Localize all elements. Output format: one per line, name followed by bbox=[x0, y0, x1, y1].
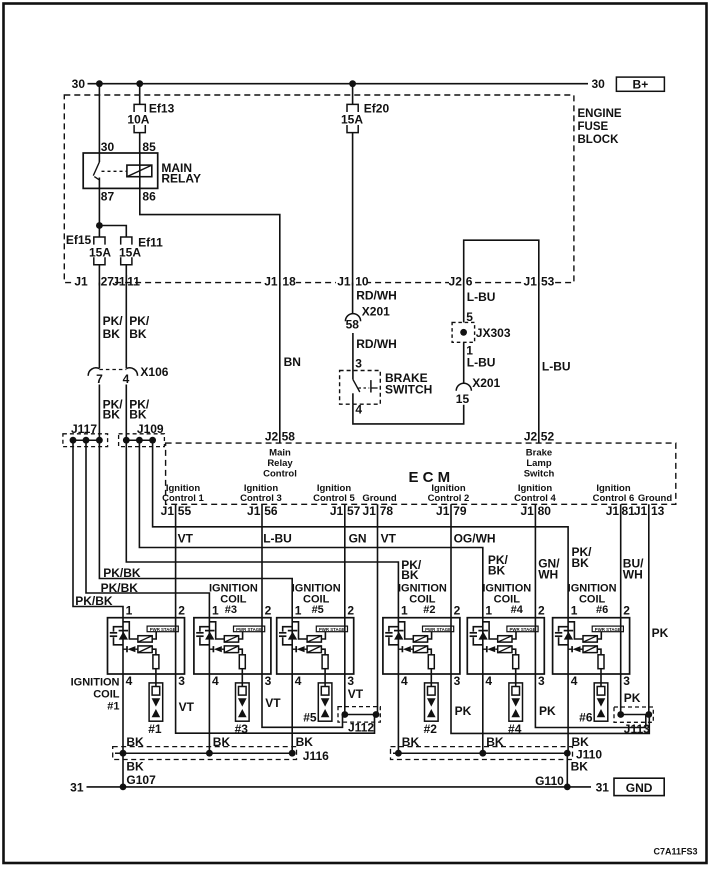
brake switch arm bbox=[353, 379, 360, 392]
wire VT J1-78 to J112 bbox=[377, 504, 379, 714]
fuse Ef20 15A bbox=[347, 104, 358, 112]
svg-text:Control 2: Control 2 bbox=[428, 493, 470, 504]
ignition coil #5 resistor bbox=[321, 649, 325, 655]
svg-text:WH: WH bbox=[623, 568, 643, 582]
spark plug #2 bbox=[425, 683, 439, 721]
main relay box bbox=[83, 153, 158, 188]
ignition coil #1 wire to spark plug bbox=[155, 669, 157, 687]
wire J2-6 to JX303 bbox=[463, 283, 465, 323]
connector X201 pin 58 arc bbox=[345, 314, 360, 322]
svg-text:1: 1 bbox=[401, 604, 408, 618]
svg-text:VT: VT bbox=[265, 696, 281, 710]
svg-text:BK: BK bbox=[126, 760, 144, 774]
splice JX303 bbox=[452, 322, 475, 342]
ignition coil #6 resistor bbox=[597, 649, 601, 655]
wire Ef20 to J1-10 bbox=[352, 133, 354, 283]
wire PK/BK feed to ignition coil1 pin 1 bbox=[73, 440, 123, 618]
ignition coil #6 power stage bbox=[592, 626, 623, 632]
junction on 30 bus at relay feed bbox=[96, 80, 103, 87]
svg-text:87: 87 bbox=[101, 190, 115, 204]
svg-text:#6: #6 bbox=[579, 710, 593, 724]
svg-text:Main: Main bbox=[269, 448, 291, 459]
svg-text:BK: BK bbox=[103, 408, 121, 422]
svg-text:IGNITION: IGNITION bbox=[568, 583, 617, 595]
main relay pin 85-86 through wire bbox=[139, 153, 141, 188]
main relay actuator dashed link bbox=[102, 170, 127, 172]
brake switch pin 4 stub bbox=[352, 393, 354, 404]
main relay coil bbox=[127, 165, 152, 177]
ignition coil #5 wire to spark plug bbox=[324, 669, 326, 687]
svg-text:J113: J113 bbox=[624, 722, 650, 736]
ground G110 junction bbox=[564, 784, 571, 791]
svg-text:VT: VT bbox=[179, 700, 195, 714]
svg-text:#2: #2 bbox=[423, 604, 435, 616]
wire 30 bus to fuse Ef13 bbox=[139, 84, 141, 105]
wire BN J1-18 to ECM J2-58 bbox=[279, 283, 281, 444]
splice J113 bbox=[614, 707, 653, 722]
svg-text:GN: GN bbox=[349, 532, 367, 546]
wire G110 ground drop bbox=[566, 753, 568, 787]
svg-text:1: 1 bbox=[485, 604, 492, 618]
junction on 30 bus at Ef20 bbox=[349, 80, 356, 87]
svg-text:#4: #4 bbox=[508, 722, 522, 736]
fuse Ef11 15A bbox=[121, 237, 132, 245]
wire GN J1-57 to coil5 pin 2 and pin 3 to J112 bbox=[344, 504, 346, 714]
ignition coil #5 secondary diode bbox=[292, 648, 296, 650]
ignition coil #5 capacitor bbox=[283, 627, 293, 632]
svg-text:PK/: PK/ bbox=[129, 314, 150, 328]
svg-text:1: 1 bbox=[466, 344, 473, 358]
svg-text:Ground: Ground bbox=[362, 493, 396, 504]
svg-text:IGNITION: IGNITION bbox=[292, 583, 341, 595]
fuse Ef15 15A bbox=[94, 237, 105, 245]
ignition coil #1 capacitor bbox=[114, 627, 124, 632]
svg-text:X201: X201 bbox=[362, 305, 390, 319]
svg-text:J1: J1 bbox=[74, 275, 88, 289]
wire 31 ground bus bbox=[87, 786, 592, 788]
splice bus J110 bbox=[391, 747, 573, 760]
ignition coil #2 capacitor bbox=[389, 627, 399, 632]
ignition coil #6 secondary diode bbox=[568, 648, 572, 650]
svg-text:#4: #4 bbox=[511, 604, 524, 616]
svg-text:BK: BK bbox=[401, 568, 419, 582]
wire PK/BK feed to ignition coil5 pin 1 bbox=[99, 440, 292, 618]
svg-text:X201: X201 bbox=[472, 376, 500, 390]
svg-text:B+: B+ bbox=[633, 77, 649, 91]
svg-text:3: 3 bbox=[355, 357, 362, 371]
svg-text:#1: #1 bbox=[148, 722, 162, 736]
svg-text:Control 5: Control 5 bbox=[313, 493, 355, 504]
svg-text:G110: G110 bbox=[535, 774, 564, 788]
svg-text:BK: BK bbox=[488, 564, 506, 578]
ignition coil #5 zener diode bbox=[288, 630, 298, 632]
ignition coil #6 primary winding bbox=[568, 622, 583, 639]
ignition coil #2 primary winding bbox=[398, 622, 413, 639]
svg-text:SWITCH: SWITCH bbox=[385, 383, 432, 397]
svg-text:4: 4 bbox=[571, 674, 578, 688]
svg-text:RD/WH: RD/WH bbox=[356, 337, 397, 351]
wire J1-11 to X106-4 bbox=[125, 283, 127, 369]
ignition coil #2 zener diode bbox=[394, 630, 404, 632]
ignition coil #6 secondary winding bbox=[583, 646, 597, 653]
svg-text:J1: J1 bbox=[247, 504, 261, 518]
ignition coil #1 primary winding bbox=[123, 622, 138, 639]
svg-text:J116: J116 bbox=[303, 749, 329, 763]
wire Ef13 to relay pin 85 bbox=[139, 133, 141, 153]
svg-text:#6: #6 bbox=[596, 604, 608, 616]
ignition coil #3 pin 1-4 through wire bbox=[208, 618, 210, 754]
svg-text:IGNITION: IGNITION bbox=[209, 583, 258, 595]
ignition coil #3 secondary winding bbox=[224, 646, 238, 653]
svg-text:BK: BK bbox=[103, 327, 121, 341]
wire brake switch pin 4 to X201-15 leg bbox=[353, 404, 464, 424]
svg-text:#5: #5 bbox=[312, 604, 324, 616]
ground G107 junction bbox=[120, 784, 127, 791]
ignition coil #4 capacitor bbox=[473, 627, 483, 632]
svg-text:WH: WH bbox=[538, 568, 558, 582]
svg-text:GND: GND bbox=[626, 781, 653, 795]
ignition coil #3 zener diode bbox=[205, 630, 215, 632]
ignition coil #6 box bbox=[553, 618, 630, 674]
wire G107 ground drop bbox=[122, 753, 124, 787]
svg-text:58: 58 bbox=[282, 430, 296, 444]
svg-text:J1: J1 bbox=[112, 275, 126, 289]
spark plug #4 bbox=[509, 683, 523, 721]
svg-text:OG/WH: OG/WH bbox=[454, 532, 496, 546]
ignition coil #2 power stage bbox=[423, 626, 454, 632]
svg-text:1: 1 bbox=[126, 604, 133, 618]
svg-text:#2: #2 bbox=[424, 722, 438, 736]
svg-text:2: 2 bbox=[454, 604, 461, 618]
svg-text:L-BU: L-BU bbox=[263, 532, 292, 546]
wire VT J1-55 to coil1 pin 2 and pin 3 to J112 bbox=[176, 504, 375, 733]
svg-text:FUSE: FUSE bbox=[578, 121, 609, 133]
wire PK/BK feed to ignition coil4 pin 1 bbox=[139, 440, 482, 618]
svg-text:#3: #3 bbox=[235, 722, 249, 736]
svg-text:BK: BK bbox=[486, 735, 504, 749]
svg-text:PWR STAGE: PWR STAGE bbox=[319, 627, 346, 633]
svg-text:J1: J1 bbox=[634, 504, 648, 518]
svg-text:58: 58 bbox=[346, 318, 360, 332]
svg-text:53: 53 bbox=[541, 275, 555, 289]
ignition coil #3 resistor bbox=[239, 649, 243, 655]
svg-text:10: 10 bbox=[355, 275, 369, 289]
spark plug #6 bbox=[594, 683, 608, 721]
svg-text:15A: 15A bbox=[119, 245, 141, 259]
ignition coil #5 pin 1-4 through wire bbox=[291, 618, 293, 754]
ignition coil #4 resistor bbox=[512, 649, 516, 655]
svg-text:J1: J1 bbox=[524, 275, 538, 289]
ignition coil #1 power stage bbox=[147, 626, 178, 632]
svg-text:PWR STAGE: PWR STAGE bbox=[236, 627, 263, 633]
svg-text:3: 3 bbox=[623, 674, 630, 688]
svg-text:13: 13 bbox=[651, 504, 665, 518]
wire X106-7 to J117 bbox=[98, 385, 100, 441]
svg-text:3: 3 bbox=[347, 674, 354, 688]
svg-text:Ground: Ground bbox=[638, 493, 672, 504]
svg-text:PK/BK: PK/BK bbox=[75, 594, 113, 608]
ignition coil #3 capacitor bbox=[200, 627, 210, 632]
svg-text:RELAY: RELAY bbox=[161, 172, 201, 186]
svg-text:80: 80 bbox=[538, 504, 552, 518]
svg-text:15A: 15A bbox=[341, 113, 363, 127]
brake switch pin 3 stub bbox=[352, 371, 354, 380]
spark plug #3 bbox=[236, 683, 250, 721]
svg-text:BK: BK bbox=[129, 408, 147, 422]
svg-text:RD/WH: RD/WH bbox=[356, 289, 397, 303]
ignition coil #1 box bbox=[108, 618, 185, 674]
svg-text:JX303: JX303 bbox=[476, 326, 511, 340]
wire PK/BK feed to ignition coil3 pin 1 bbox=[86, 440, 209, 618]
svg-text:4: 4 bbox=[485, 674, 492, 688]
spark plug #1 bbox=[149, 683, 163, 721]
svg-text:4: 4 bbox=[123, 372, 130, 386]
svg-text:X106: X106 bbox=[140, 365, 168, 379]
ignition coil #5 secondary winding bbox=[307, 646, 321, 653]
svg-text:4: 4 bbox=[126, 674, 133, 688]
ignition coil #6 capacitor bbox=[559, 627, 569, 632]
pin label J1 27 bbox=[73, 275, 114, 285]
wire J1-27 to X106-7 bbox=[98, 283, 100, 369]
wire J1-53 to ECM J2-52 bbox=[538, 283, 540, 444]
ignition coil #6 pin 1-4 through wire bbox=[567, 618, 569, 754]
svg-text:Lamp: Lamp bbox=[526, 458, 552, 469]
svg-text:C7A11FS3: C7A11FS3 bbox=[653, 847, 697, 857]
svg-text:7: 7 bbox=[96, 372, 103, 386]
svg-text:57: 57 bbox=[347, 504, 361, 518]
svg-text:IGNITION: IGNITION bbox=[398, 583, 447, 595]
svg-text:4: 4 bbox=[401, 674, 408, 688]
wire PK/BK feed to ignition coil2 pin 1 bbox=[126, 440, 398, 618]
svg-text:Control: Control bbox=[263, 469, 297, 480]
svg-text:30: 30 bbox=[72, 77, 86, 91]
svg-text:PK: PK bbox=[652, 626, 669, 640]
svg-text:BK: BK bbox=[296, 735, 314, 749]
ignition coil #3 secondary diode bbox=[209, 648, 213, 650]
svg-text:Control 1: Control 1 bbox=[162, 493, 204, 504]
ignition coil #3 box bbox=[194, 618, 271, 674]
svg-text:Control 3: Control 3 bbox=[240, 493, 282, 504]
ignition coil #4 primary winding bbox=[483, 622, 498, 639]
wire branch to Ef11 bbox=[99, 226, 126, 238]
svg-text:11: 11 bbox=[127, 275, 140, 289]
wire relay pin 86 to J1-18 bbox=[140, 188, 280, 282]
wire PK/BK feed to ignition coil6 pin 1 bbox=[153, 440, 568, 618]
main relay switch arm bbox=[93, 162, 99, 176]
connector X106 arcs and dashed link bbox=[88, 368, 99, 376]
ignition coil #1 resistor bbox=[152, 649, 156, 655]
brake switch actuator dashed link bbox=[359, 387, 370, 389]
svg-text:30: 30 bbox=[101, 140, 115, 154]
svg-text:30: 30 bbox=[592, 77, 606, 91]
connector X201 pin 15 arc bbox=[456, 383, 471, 391]
junction below relay pin 87 bbox=[96, 222, 103, 229]
wire OG/WH J1-79 to coil2 pin 2 and pin 3 to J113 bbox=[451, 504, 649, 733]
svg-text:J2: J2 bbox=[265, 430, 279, 444]
ignition coil #5 power stage bbox=[316, 626, 347, 632]
svg-text:J1: J1 bbox=[363, 504, 377, 518]
ignition coil #4 zener diode bbox=[478, 630, 488, 632]
svg-text:2: 2 bbox=[178, 604, 185, 618]
GND box bbox=[614, 778, 664, 795]
svg-text:2: 2 bbox=[265, 604, 272, 618]
ignition coil #2 secondary diode bbox=[398, 648, 402, 650]
svg-text:J1: J1 bbox=[520, 504, 534, 518]
svg-text:6: 6 bbox=[466, 275, 473, 289]
svg-text:3: 3 bbox=[538, 674, 545, 688]
svg-text:COIL: COIL bbox=[93, 689, 120, 701]
svg-text:4: 4 bbox=[355, 403, 362, 417]
svg-text:31: 31 bbox=[70, 781, 84, 795]
svg-text:L-BU: L-BU bbox=[542, 360, 571, 374]
splice bus J116 bbox=[113, 747, 297, 760]
ignition coil #2 box bbox=[383, 618, 460, 674]
spark plug #5 bbox=[318, 683, 332, 721]
svg-text:PK/BK: PK/BK bbox=[101, 581, 139, 595]
svg-text:BK: BK bbox=[126, 735, 144, 749]
pin label J2 6 bbox=[449, 275, 473, 285]
svg-text:10A: 10A bbox=[127, 113, 149, 127]
svg-text:Ef13: Ef13 bbox=[149, 102, 175, 116]
svg-text:PK: PK bbox=[539, 704, 556, 718]
ignition coil #4 secondary diode bbox=[483, 648, 487, 650]
svg-text:2: 2 bbox=[623, 604, 630, 618]
ignition coil #2 secondary winding bbox=[413, 646, 427, 653]
wire bridge J2-6 to J1-53 inside fuse block bbox=[464, 240, 539, 282]
B+ supply box bbox=[616, 77, 664, 91]
svg-text:BK: BK bbox=[213, 735, 231, 749]
wire 30 bus bbox=[88, 83, 589, 85]
svg-text:BK: BK bbox=[572, 735, 590, 749]
wire BU/WH J1-81 to coil6 pin 2 and pin 3 to J113 bbox=[620, 504, 622, 714]
svg-text:55: 55 bbox=[178, 504, 192, 518]
svg-text:79: 79 bbox=[453, 504, 467, 518]
ignition coil #3 power stage bbox=[234, 626, 265, 632]
svg-text:#3: #3 bbox=[225, 604, 237, 616]
ignition coil #5 box bbox=[277, 618, 354, 674]
ignition coil #2 wire to spark plug bbox=[430, 669, 432, 687]
brake switch box bbox=[340, 371, 381, 405]
svg-text:15: 15 bbox=[456, 392, 470, 406]
svg-text:2: 2 bbox=[347, 604, 354, 618]
ignition coil #4 pin 1-4 through wire bbox=[482, 618, 484, 754]
svg-text:J1: J1 bbox=[161, 504, 175, 518]
svg-text:52: 52 bbox=[541, 430, 555, 444]
svg-text:Switch: Switch bbox=[524, 469, 555, 480]
fuse Ef13 10A bbox=[134, 104, 145, 112]
svg-text:L-BU: L-BU bbox=[467, 290, 496, 304]
svg-text:Ef11: Ef11 bbox=[138, 235, 163, 249]
wire PK J1-13 to J113 bbox=[648, 504, 650, 714]
svg-text:#5: #5 bbox=[303, 710, 317, 724]
svg-text:J112: J112 bbox=[348, 721, 374, 735]
wire 30 bus to relay pin 30 bbox=[98, 84, 100, 153]
ignition coil #1 secondary winding bbox=[138, 646, 152, 653]
svg-text:G107: G107 bbox=[126, 773, 156, 787]
svg-text:Ef15: Ef15 bbox=[66, 233, 92, 247]
svg-text:IGNITION: IGNITION bbox=[71, 677, 120, 689]
ignition coil #3 wire to spark plug bbox=[241, 669, 243, 687]
junction on 30 bus at Ef13 bbox=[136, 80, 143, 87]
svg-text:5: 5 bbox=[466, 310, 473, 324]
svg-text:BK: BK bbox=[129, 327, 147, 341]
svg-text:J1: J1 bbox=[264, 275, 278, 289]
svg-text:VT: VT bbox=[381, 532, 397, 546]
svg-text:#1: #1 bbox=[107, 701, 119, 713]
splice J112 bbox=[338, 707, 380, 723]
ignition coil #6 wire to spark plug bbox=[600, 669, 602, 687]
svg-text:VT: VT bbox=[178, 532, 194, 546]
svg-text:PK/: PK/ bbox=[103, 314, 124, 328]
ignition coil #4 secondary winding bbox=[498, 646, 512, 653]
svg-text:Control 4: Control 4 bbox=[514, 493, 556, 504]
svg-text:J2: J2 bbox=[449, 275, 463, 289]
engine fuse block boundary bbox=[64, 95, 574, 283]
svg-text:Relay: Relay bbox=[267, 458, 293, 469]
wire Ef11 to J1-11 bbox=[125, 265, 127, 283]
svg-text:1: 1 bbox=[212, 604, 219, 618]
ignition coil #5 primary winding bbox=[292, 622, 307, 639]
svg-text:ENGINE: ENGINE bbox=[578, 108, 622, 120]
main relay pin 87 stub bbox=[98, 178, 100, 189]
ignition coil #2 pin 1-4 through wire bbox=[397, 618, 399, 754]
svg-text:3: 3 bbox=[454, 674, 461, 688]
wire X201-58 to brake switch pin 3 bbox=[352, 333, 354, 371]
svg-text:78: 78 bbox=[380, 504, 394, 518]
svg-text:BLOCK: BLOCK bbox=[578, 134, 620, 146]
pin label J1 53 bbox=[524, 275, 554, 285]
svg-text:PK: PK bbox=[455, 704, 472, 718]
brake switch plunger bar bbox=[370, 380, 372, 392]
wire X106-4 to J109 bbox=[125, 385, 127, 441]
ignition coil #3 primary winding bbox=[209, 622, 224, 639]
svg-text:IGNITION: IGNITION bbox=[482, 583, 531, 595]
ignition coil #6 zener diode bbox=[564, 630, 574, 632]
svg-text:PWR STAGE: PWR STAGE bbox=[150, 627, 177, 633]
svg-text:Ef20: Ef20 bbox=[364, 102, 390, 116]
ignition coil #1 zener diode bbox=[119, 630, 129, 632]
svg-text:2: 2 bbox=[538, 604, 545, 618]
svg-text:J2: J2 bbox=[524, 430, 538, 444]
svg-text:PK: PK bbox=[624, 691, 641, 705]
wire relay pin 87 to junction bbox=[98, 188, 100, 237]
svg-text:VT: VT bbox=[348, 687, 364, 701]
svg-text:J1: J1 bbox=[606, 504, 620, 518]
svg-text:86: 86 bbox=[142, 190, 156, 204]
ignition coil #4 wire to spark plug bbox=[515, 669, 517, 687]
svg-text:J1: J1 bbox=[330, 504, 344, 518]
ignition coil #2 resistor bbox=[428, 649, 432, 655]
svg-text:Brake: Brake bbox=[526, 448, 552, 459]
svg-text:BK: BK bbox=[572, 556, 590, 570]
svg-text:Control 6: Control 6 bbox=[593, 493, 635, 504]
svg-text:3: 3 bbox=[265, 674, 272, 688]
svg-text:56: 56 bbox=[264, 504, 278, 518]
wire 30 bus to fuse Ef20 bbox=[352, 84, 354, 105]
svg-text:PK/BK: PK/BK bbox=[103, 566, 141, 580]
svg-text:J1: J1 bbox=[436, 504, 450, 518]
svg-text:BK: BK bbox=[571, 759, 589, 773]
pin label J1 10 bbox=[336, 275, 367, 285]
svg-text:PWR STAGE: PWR STAGE bbox=[510, 627, 537, 633]
ignition coil #1 pin 1-4 through wire bbox=[122, 618, 124, 754]
svg-text:1: 1 bbox=[295, 604, 302, 618]
ignition coil #4 box bbox=[467, 618, 544, 674]
wire JX303 to X201-15 bbox=[463, 342, 465, 383]
wire Ef15 to J1-27 bbox=[98, 265, 100, 283]
svg-text:85: 85 bbox=[142, 140, 156, 154]
ignition coil #4 power stage bbox=[507, 626, 538, 632]
